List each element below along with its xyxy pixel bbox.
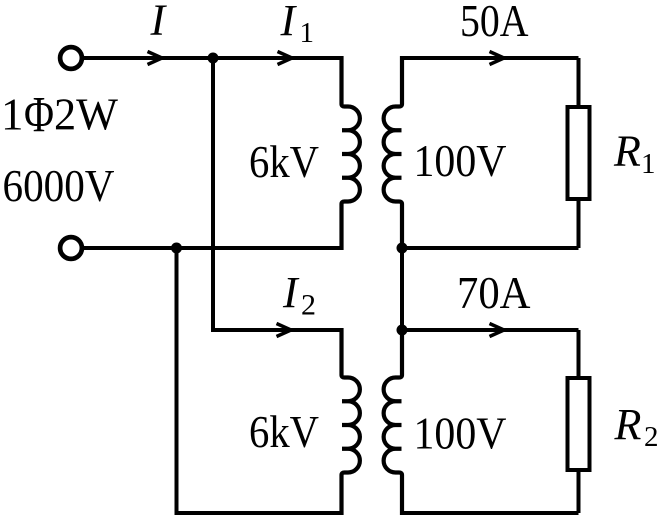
svg-text:R: R bbox=[613, 127, 641, 176]
svg-text:100V: 100V bbox=[414, 136, 507, 186]
terminal J2 (bottom input) bbox=[60, 237, 82, 259]
svg-text:70A: 70A bbox=[457, 268, 531, 318]
svg-text:100V: 100V bbox=[414, 409, 507, 459]
wire: TR1 secondary right side down to R1 bbox=[577, 58, 581, 107]
wire: TR2 secondary loop top / 70A wire (y=330) bbox=[402, 328, 579, 332]
wire: top feeder from J1 to primary TR1 (y=58) bbox=[84, 56, 342, 60]
wire: R1 bottom to TR1 secondary bottom bbox=[577, 199, 581, 248]
wire: branch from node B down to primary TR2 bottom (x=176.5) bbox=[177, 248, 342, 513]
svg-text:6kV: 6kV bbox=[249, 137, 319, 187]
wire: TR1 secondary loop bottom (y=248) bbox=[402, 246, 579, 250]
arrow 50A (secondary 1 current) bbox=[490, 52, 505, 65]
wire: R2 bottom to TR2 secondary bottom bbox=[577, 470, 581, 513]
svg-text:6kV: 6kV bbox=[249, 407, 319, 457]
wire: TR2 secondary loop bottom (y=513) bbox=[402, 511, 579, 515]
transformer TR2 primary winding (6kV) bbox=[342, 328, 360, 515]
svg-text:1: 1 bbox=[300, 17, 315, 49]
terminal J1 (top input) bbox=[60, 47, 82, 69]
node B (junction dot on bottom feeder) bbox=[171, 243, 182, 254]
node C (junction dot, TR1 secondary bottom left) bbox=[397, 243, 408, 254]
svg-text:2W: 2W bbox=[54, 90, 119, 140]
wire: bottom feeder from J2 to primary TR1 bottom (y=248) bbox=[84, 246, 342, 250]
svg-text:1: 1 bbox=[1, 90, 24, 140]
resistor R1 bbox=[568, 107, 590, 199]
arrow 70A (secondary 2 current) bbox=[490, 324, 505, 337]
wire: TR1 secondary loop top (y=58) bbox=[402, 56, 579, 60]
wire: TR2 secondary right side down to R2 bbox=[577, 330, 581, 378]
transformer TR1 secondary winding (100V) bbox=[384, 56, 402, 250]
svg-text:I: I bbox=[282, 268, 300, 317]
svg-text:R: R bbox=[614, 400, 642, 449]
svg-text:2: 2 bbox=[644, 421, 657, 453]
node A (junction dot on top feeder) bbox=[208, 53, 219, 64]
svg-text:2: 2 bbox=[301, 289, 316, 322]
node D (junction dot, TR2 secondary top left) bbox=[397, 325, 408, 336]
resistor R2 bbox=[568, 378, 590, 470]
svg-text:Φ: Φ bbox=[24, 88, 54, 144]
wire: branch from node A down to I2 feeder (x=213) bbox=[213, 58, 342, 330]
arrow I (on top feeder) bbox=[148, 52, 163, 65]
svg-text:50A: 50A bbox=[460, 0, 529, 46]
arrow I2 (on I2 feeder) bbox=[277, 324, 292, 337]
svg-text:1: 1 bbox=[641, 148, 656, 180]
arrow I1 (top feeder after node A) bbox=[278, 52, 293, 65]
svg-text:I: I bbox=[150, 0, 168, 45]
svg-text:6000V: 6000V bbox=[3, 161, 115, 211]
transformer TR1 primary winding (6kV) bbox=[342, 56, 360, 250]
wire: link between secondaries (x=402, y 248..330) bbox=[400, 248, 404, 330]
svg-text:I: I bbox=[280, 0, 298, 45]
transformer TR2 secondary winding (100V) bbox=[384, 328, 402, 515]
